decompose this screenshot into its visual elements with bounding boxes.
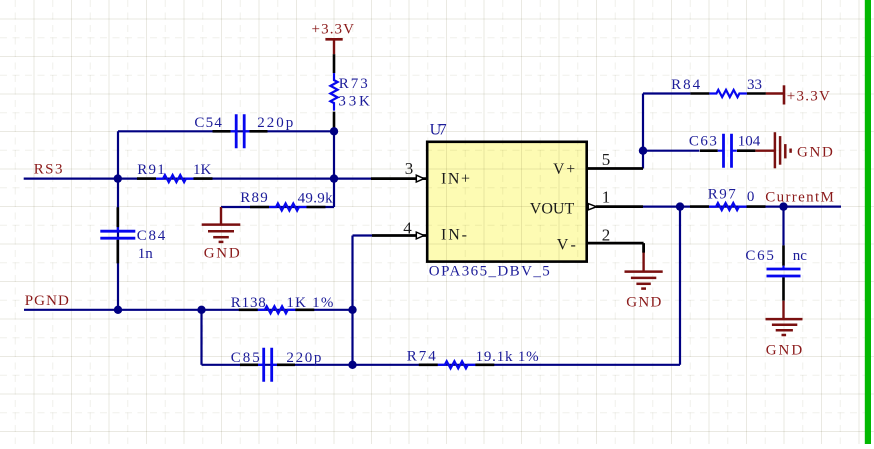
resistor R97 (690, 203, 766, 210)
svg-text:OPA365_DBV_5: OPA365_DBV_5 (429, 264, 550, 280)
pin 4 IN- (372, 234, 427, 237)
green bar right edge (865, 0, 871, 444)
junction RS3/C84 node (114, 174, 122, 182)
ground GND below C65 (766, 301, 803, 335)
wire IN- stub (353, 234, 373, 236)
svg-text:33K: 33K (338, 93, 370, 109)
wire vertical C85 branch (200, 310, 202, 365)
wire vertical feedback (351, 236, 353, 365)
resistor R89 (250, 203, 326, 210)
svg-text:C63: C63 (689, 133, 717, 149)
svg-text:nc: nc (793, 248, 808, 264)
wire C54 row (118, 130, 334, 132)
junction R138/feedback node (348, 306, 356, 314)
capacitor C54 (213, 114, 268, 148)
junction R73/C54 node (330, 127, 338, 135)
capacitor C65 (vertical) (767, 245, 801, 300)
svg-text:R97: R97 (708, 187, 737, 203)
resistor R74 (419, 361, 495, 368)
svg-text:PGND: PGND (25, 293, 69, 309)
svg-text:VOUT: VOUT (530, 201, 575, 218)
wire VOUT row (643, 206, 841, 208)
junction PGND/C84 node (114, 306, 122, 314)
pin 1 VOUT (596, 205, 643, 208)
wire vertical V+ branch (642, 94, 644, 169)
wire C65 stub (782, 207, 784, 246)
svg-text:C84: C84 (137, 228, 166, 244)
svg-text:R73: R73 (339, 76, 368, 92)
svg-text:C54: C54 (194, 115, 222, 131)
power +3.3V top (325, 39, 342, 54)
capacitor C84 (vertical) (100, 207, 135, 263)
svg-text:5: 5 (602, 150, 611, 169)
ground GND below V- pin (625, 252, 663, 289)
wire RS3 row (24, 178, 371, 180)
svg-text:1K 1%: 1K 1% (286, 295, 333, 311)
capacitor C63 (700, 134, 756, 168)
svg-text:IN+: IN+ (441, 171, 470, 188)
wire C63 stub (643, 150, 699, 152)
op-amp U7 border (427, 142, 587, 262)
svg-text:104: 104 (738, 133, 761, 149)
ground GND right of C63 (rotated) (755, 132, 790, 168)
svg-text:4: 4 (403, 219, 412, 238)
resistor R91 (137, 175, 213, 182)
svg-text:R138: R138 (231, 295, 266, 311)
svg-text:49.9k: 49.9k (298, 191, 334, 207)
ground GND below R89 (202, 207, 241, 242)
junction R97/C65 node (779, 202, 787, 210)
svg-text:GND: GND (766, 343, 803, 359)
capacitor C85 (240, 348, 295, 382)
svg-text:33: 33 (747, 77, 762, 93)
svg-text:1: 1 (602, 188, 611, 207)
svg-text:IN-: IN- (441, 226, 467, 243)
junction PGND/C85 node (197, 306, 205, 314)
svg-text:C85: C85 (231, 350, 260, 366)
power +3.3V right (766, 85, 784, 104)
svg-text:GND: GND (797, 145, 833, 161)
svg-text:C65: C65 (745, 248, 774, 264)
junction C85/R74 node (348, 361, 356, 369)
svg-text:R89: R89 (240, 190, 267, 206)
svg-text:V-: V- (557, 237, 576, 254)
svg-text:1n: 1n (138, 246, 154, 262)
svg-text:U7: U7 (430, 121, 447, 138)
svg-text:1K: 1K (193, 162, 212, 178)
junction V+/C63 node (639, 147, 647, 155)
junction IN+ node (330, 174, 338, 182)
svg-text:220p: 220p (286, 350, 321, 366)
svg-text:GND: GND (204, 246, 240, 262)
resistor R84 (690, 90, 766, 97)
svg-text:2: 2 (602, 225, 611, 244)
wire R89 row (221, 206, 334, 208)
junction VOUT/R74 node (676, 202, 684, 210)
svg-text:R84: R84 (671, 77, 701, 93)
svg-text:RS3: RS3 (34, 162, 63, 178)
svg-text:19.1k 1%: 19.1k 1% (476, 349, 539, 365)
svg-text:R91: R91 (137, 162, 165, 178)
pin 3 IN+ (371, 177, 427, 180)
pin 5 V+ (587, 167, 643, 170)
wire vertical R73 node (333, 131, 335, 207)
resistor R73 (vertical) (330, 54, 337, 130)
svg-text:+3.3V: +3.3V (787, 88, 830, 104)
pin 2 V- (587, 243, 644, 253)
svg-text:V+: V+ (553, 161, 575, 178)
wire vertical left node (117, 131, 119, 309)
svg-text:+3.3V: +3.3V (312, 22, 355, 38)
svg-text:3: 3 (405, 159, 414, 178)
resistor R138 (239, 306, 314, 313)
svg-text:0: 0 (747, 189, 755, 205)
wire vertical VOUT feedback (679, 207, 681, 365)
op-amp U7 body fill (427, 142, 587, 262)
wire bottom row (202, 364, 681, 366)
svg-text:R74: R74 (407, 349, 437, 365)
svg-text:GND: GND (626, 295, 661, 311)
wire R84 stub (643, 92, 690, 94)
wire PGND row (24, 309, 353, 311)
